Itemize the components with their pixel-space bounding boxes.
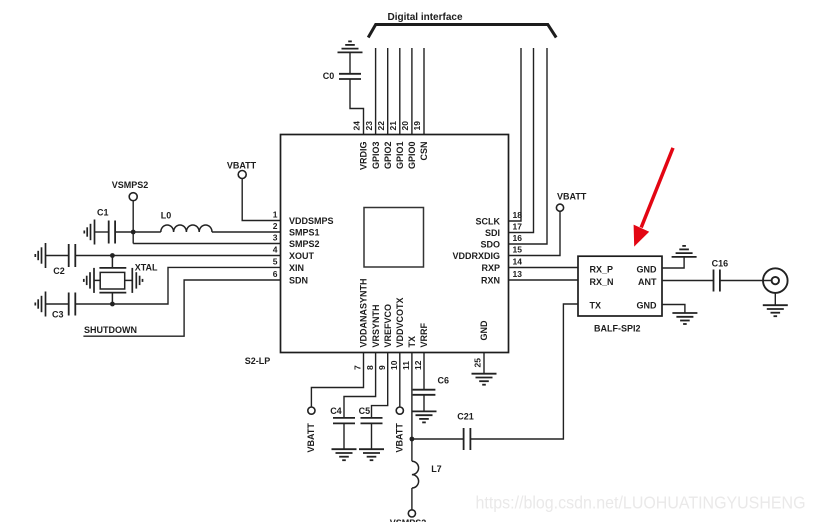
svg-text:BALF-SPI2: BALF-SPI2 [594,323,641,333]
svg-text:14: 14 [513,257,523,267]
capacitor C0 [339,74,361,79]
svg-text:8: 8 [365,365,375,370]
capacitor C6 [413,390,436,395]
svg-text:3: 3 [273,233,278,243]
svg-text:18: 18 [513,210,523,220]
svg-text:VBATT: VBATT [557,192,587,202]
VSMPS2 terminal (bottom) [408,510,415,517]
wire pin 23 riser [375,48,377,135]
svg-text:L7: L7 [431,464,442,474]
wire pin 12 to C6 [423,353,425,390]
pin numbers right [513,210,523,279]
VBATT terminal (pin1) [242,179,280,221]
wire SCLK riser [509,48,522,221]
svg-text:XTAL: XTAL [135,262,158,272]
svg-text:24: 24 [352,121,362,131]
IC U1 S2-LP body [281,135,509,353]
svg-text:C0: C0 [323,71,335,81]
capacitor C1 [95,231,109,233]
svg-text:4: 4 [273,245,278,255]
wire pin 20 riser [411,48,413,135]
wire L7 to terminal [411,488,413,510]
svg-text:GND: GND [637,301,658,311]
svg-text:GND: GND [637,265,658,275]
pin numbers left [273,210,278,280]
wire pin 11 TX node [411,353,413,462]
crystal XTAL [94,256,132,305]
svg-text:VDDSMPS: VDDSMPS [289,216,334,226]
pin numbers top (rotated) [352,121,423,131]
ground (C1) [84,220,94,245]
svg-text:SMPS1: SMPS1 [289,227,320,237]
svg-text:XIN: XIN [289,263,304,273]
svg-text:VREFVCO: VREFVCO [383,304,393,348]
ground (C5) [359,449,384,460]
svg-text:TX: TX [590,301,602,311]
capacitor C2 [46,255,69,257]
pin names right [452,216,500,285]
VBATT terminal (pin15) [556,204,563,211]
wire C21 to node [412,438,464,440]
svg-text:VSMPS2: VSMPS2 [390,518,427,522]
wire balun GND top [662,257,684,268]
svg-text:CSN: CSN [419,142,429,161]
ground (connector) [763,305,788,316]
wire pin 19 riser [423,48,425,135]
svg-text:22: 22 [376,121,386,131]
svg-text:C1: C1 [97,207,109,217]
capacitor C3 [46,303,69,305]
svg-text:SDI: SDI [485,228,500,238]
svg-text:15: 15 [513,245,523,255]
svg-text:5: 5 [273,256,278,266]
wire SDO riser [509,48,548,244]
svg-text:C2: C2 [53,266,65,276]
node XTAL bottom [110,302,115,307]
svg-text:C4: C4 [330,406,342,416]
svg-text:C3: C3 [52,309,64,319]
svg-text:SDN: SDN [289,275,308,285]
svg-text:C6: C6 [438,376,450,386]
wire SDI riser [509,48,534,233]
wire pin 15 VDDRXDIG to VBATT [509,211,561,255]
wire pin 21 riser [399,48,401,135]
capacitor C16 [714,270,720,292]
wire connector to ground [774,293,776,305]
svg-text:19: 19 [412,121,422,131]
ground (balun top, flipped) [672,246,697,257]
pin names top (rotated) [359,142,430,171]
RF connector J1 [763,268,788,293]
svg-text:VBATT: VBATT [395,423,405,453]
inductor L0 [161,225,212,232]
capacitor C21 [464,428,471,450]
wire C1 to L0 [115,231,161,233]
node TX junction [410,437,415,442]
svg-text:17: 17 [513,222,523,232]
svg-text:VDDVCOTX: VDDVCOTX [395,297,405,347]
ground (XTAL left) [84,268,94,293]
node XTAL top [110,253,115,258]
wire balun GND bottom [662,305,685,313]
pin names left [289,216,334,285]
svg-text:23: 23 [364,121,374,131]
svg-text:VRSYNTH: VRSYNTH [371,304,381,347]
wire C0 to pin 24 [350,79,364,135]
svg-text:GPIO0: GPIO0 [407,142,417,170]
svg-text:12: 12 [413,360,423,370]
balun U2 BALF-SPI2 [578,256,662,316]
svg-text:RX_P: RX_P [590,265,614,275]
svg-text:7: 7 [353,365,363,370]
svg-text:GPIO3: GPIO3 [371,142,381,170]
wire XIN path [75,267,280,304]
svg-text:9: 9 [377,365,387,370]
inductor L7 [412,461,419,488]
svg-text:VSMPS2: VSMPS2 [112,180,149,190]
pin names bottom (rotated) [359,278,490,347]
svg-text:Digital interface: Digital interface [388,12,463,23]
svg-text:GND: GND [479,320,489,341]
svg-text:2: 2 [273,221,278,231]
VBATT terminal (pin7) [308,407,315,414]
svg-text:RXP: RXP [481,263,500,273]
svg-text:SCLK: SCLK [476,216,501,226]
ground (C4) [332,449,357,460]
wire RXP to balun [509,267,579,269]
wire RXN to balun [509,279,579,281]
svg-text:L0: L0 [161,210,172,220]
wire L0 to pin 2 [212,231,281,233]
svg-text:https://blog.csdn.net/LUOHUATI: https://blog.csdn.net/LUOHUATINGYUSHENG [476,493,806,513]
svg-text:C16: C16 [712,259,729,269]
svg-text:VDDRXDIG: VDDRXDIG [452,251,500,261]
wire ANT to C16 [662,280,713,282]
svg-text:XOUT: XOUT [289,251,315,261]
VSMPS2 terminal [129,193,137,201]
svg-text:6: 6 [273,269,278,279]
wire pin 3 SMPS2 [133,243,280,245]
svg-text:GPIO2: GPIO2 [383,142,393,170]
ground (C3) [35,292,45,317]
capacitor C4 [333,418,355,424]
red annotation arrow [641,148,673,228]
ground (XTAL right) [132,268,142,293]
ground (pin 25) [472,374,497,385]
svg-text:C21: C21 [457,412,474,422]
wire pin 8 to C4 [344,353,376,418]
wire VSMPS2 drop [132,201,134,244]
wire TX path: balun TX to C21 [471,304,578,439]
wire pin 22 riser [387,48,389,135]
svg-text:VDDANASYNTH: VDDANASYNTH [359,278,369,347]
svg-text:C5: C5 [359,406,371,416]
svg-text:1: 1 [273,210,278,220]
ground (balun bottom) [672,313,697,324]
svg-text:VBATT: VBATT [227,161,257,171]
svg-text:10: 10 [389,360,399,370]
wire pin 9 to C5 [372,353,388,418]
svg-text:RX_N: RX_N [590,277,614,287]
ground (C0, flipped up) [338,41,363,52]
digital interface brace [368,25,556,38]
wire C0 ground to cap [349,52,351,73]
VBATT terminal (pin10) [396,407,403,414]
pin numbers bottom (rotated) [353,358,483,370]
svg-text:GPIO1: GPIO1 [395,142,405,170]
svg-text:13: 13 [513,269,523,279]
wire pin 10 to VBATT [399,353,401,408]
svg-text:S2-LP: S2-LP [245,356,271,366]
wire pin 7 to VBATT [311,353,363,408]
svg-text:RXN: RXN [481,275,500,285]
IC exposed pad square [364,208,424,268]
svg-text:20: 20 [400,121,410,131]
svg-text:VBATT: VBATT [306,423,316,453]
svg-text:SMPS2: SMPS2 [289,239,320,249]
wire pin 4 XOUT [75,255,280,257]
wire pin 25 [483,353,485,374]
svg-text:11: 11 [401,361,411,370]
svg-text:ANT: ANT [638,277,657,287]
wire SDN / SHUTDOWN [83,280,280,336]
svg-text:TX: TX [407,336,417,348]
ground (C6) [412,411,437,422]
wire C16 to connector [720,280,772,282]
svg-text:SDO: SDO [480,239,500,249]
svg-text:16: 16 [513,233,523,243]
ground (C2) [35,243,45,268]
svg-text:25: 25 [472,358,482,368]
svg-text:21: 21 [388,121,398,131]
svg-text:VRRF: VRRF [419,322,429,347]
capacitor C5 [361,418,383,424]
node junction on SMPS1 row [131,230,136,235]
svg-text:VRDIG: VRDIG [359,142,369,171]
svg-text:SHUTDOWN: SHUTDOWN [84,325,137,335]
